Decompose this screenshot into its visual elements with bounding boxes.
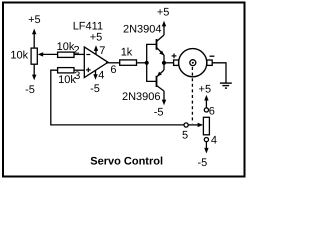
svg-text:2: 2	[74, 44, 80, 56]
- motor terminal label	[210, 55, 215, 57]
svg-text:4: 4	[211, 135, 217, 147]
svg-text:-5: -5	[198, 157, 208, 169]
resistor R3 10k	[58, 68, 74, 73]
border frame	[3, 3, 245, 177]
node emitter junction	[162, 61, 166, 65]
svg-text:2N3906: 2N3906	[122, 91, 161, 103]
transistor Q2 2N3906	[157, 63, 167, 105]
base bus wire	[147, 44, 157, 81]
transistor Q1 2N3904	[157, 24, 165, 63]
svg-text:7: 7	[99, 45, 105, 57]
ground	[220, 83, 232, 88]
svg-text:3: 3	[74, 70, 80, 82]
wire R2 to op-amp pin 2	[74, 53, 84, 55]
minus input sign	[86, 54, 90, 56]
svg-text:-5: -5	[25, 84, 35, 96]
svg-text:6: 6	[110, 64, 116, 76]
potentiometer R1 10k	[31, 48, 37, 64]
svg-text:+5: +5	[28, 14, 41, 26]
svg-text:Servo Control: Servo Control	[90, 156, 163, 168]
plus input sign	[86, 68, 91, 73]
svg-text:+5: +5	[90, 31, 103, 43]
wiper arrow into R4	[188, 123, 203, 127]
wire op-amp output pin 6 to R5	[106, 62, 120, 64]
svg-text:-5: -5	[154, 107, 164, 119]
op-amp U1 LF411	[84, 47, 108, 78]
wire R3 to op-amp pin 3	[74, 69, 84, 71]
pin 6 terminal circle (R4)	[204, 108, 208, 112]
mechanical linkage (dashed) motor to pot R4	[191, 67, 193, 123]
pin 5 terminal circle (R4)	[184, 123, 188, 127]
pin 7 arrow to +5	[94, 45, 98, 54]
pin 4 terminal circle (R4)	[204, 138, 208, 142]
wiper arrow wire (R1 wiper to R2)	[38, 52, 58, 56]
svg-text:-5: -5	[90, 83, 100, 95]
svg-text:+5: +5	[157, 7, 170, 19]
potentiometer R4	[203, 117, 209, 135]
svg-text:1k: 1k	[121, 47, 133, 59]
svg-text:+5: +5	[199, 84, 212, 96]
svg-text:2N3904: 2N3904	[123, 24, 162, 36]
resistor R5 1k	[120, 60, 137, 65]
wire arrow to -5 (left pot bottom)	[32, 64, 36, 80]
resistor R2 10k	[58, 52, 74, 57]
wire motor to ground	[212, 63, 226, 83]
arrow pot R4 top to +5	[204, 95, 208, 108]
svg-text:4: 4	[98, 69, 104, 81]
arrowhead Q1 collector to +5	[162, 21, 166, 27]
wire emitters to motor	[164, 62, 174, 64]
motor M1	[174, 49, 213, 77]
node base junction	[145, 61, 149, 65]
arrow pot R4 bottom to -5	[204, 142, 208, 154]
pin 4 arrow to -5	[93, 70, 97, 80]
wire R5 to base node	[137, 62, 147, 64]
feedback wire (pot R4 wiper to R3)	[51, 70, 184, 125]
svg-text:5: 5	[182, 130, 188, 142]
+ motor terminal label	[172, 54, 177, 59]
wire arrow to +5 (left pot top)	[32, 29, 36, 48]
svg-text:10k: 10k	[10, 49, 28, 61]
svg-text:10k: 10k	[57, 41, 75, 53]
svg-text:6: 6	[209, 106, 215, 118]
